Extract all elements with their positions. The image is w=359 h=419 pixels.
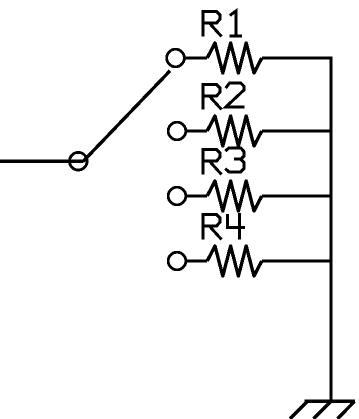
wire: R1 left lead [186, 56, 208, 59]
label R4 [203, 213, 245, 240]
label R2 [203, 83, 245, 110]
node: terminal of R3 (throw 3) [168, 187, 186, 205]
wire: R1 right lead to bus [262, 56, 331, 59]
resistor R3 [207, 181, 262, 211]
wire: R2 right lead to bus [262, 129, 331, 132]
wire: R4 right lead to bus [262, 259, 331, 262]
ground (chassis ground symbol) [290, 401, 355, 419]
wire: R3 left lead [187, 194, 207, 197]
wire: R2 left lead [187, 129, 207, 132]
node: terminal of R4 (throw 4) [168, 252, 186, 270]
switch SW1 arm (pole to R1 throw) [83, 71, 170, 162]
label R1 [203, 11, 242, 36]
wire: right bus from R1 row down to ground [329, 56, 332, 401]
wire: R4 left lead [187, 259, 207, 262]
node: terminal of R2 (throw 2) [168, 122, 186, 140]
resistor R4 [207, 246, 262, 276]
wire: R3 right lead to bus [262, 194, 331, 197]
label R3 [203, 148, 244, 175]
resistor R1 [207, 43, 262, 73]
node: terminal of R1 (throw 1) [167, 49, 185, 67]
switch SW1 pole terminal [70, 152, 88, 170]
wire: input net from left edge to switch pole [0, 160, 84, 163]
resistor R2 [207, 116, 262, 146]
